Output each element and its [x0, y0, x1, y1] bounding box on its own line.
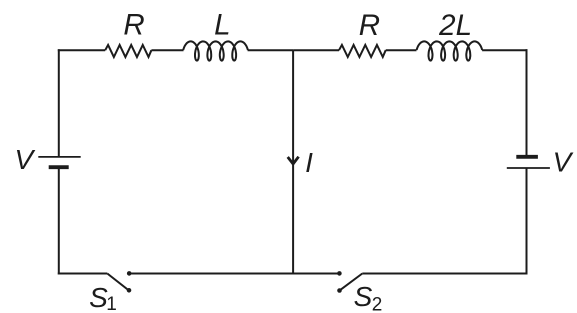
node: junction of middle branch with top wire; wire from middle node to right R [293, 49, 339, 51]
wire between R and L [151, 49, 183, 51]
svg-text:V: V [14, 144, 35, 175]
svg-text:R: R [359, 9, 380, 42]
svg-text:2L: 2L [438, 9, 472, 42]
svg-text:1: 1 [106, 294, 117, 313]
svg-text:S: S [354, 281, 373, 312]
inductor 2L [417, 41, 483, 60]
wire left vertical upper (corner down to battery) [58, 49, 60, 157]
wire middle vertical branch [292, 50, 294, 273]
wire between right R and 2L [386, 49, 417, 51]
wire top-left horizontal (top-left corner to R) [58, 49, 105, 51]
switch S2 fixed contact dot (on wire) [337, 271, 342, 276]
svg-text:L: L [214, 9, 230, 42]
battery V (left) negative short thick plate [49, 165, 69, 169]
switch S2 blade lower contact dot [337, 288, 342, 293]
inductor L [183, 41, 248, 60]
wire right vertical lower (battery to bottom-right corner) [526, 168, 528, 275]
switch S2 blade (open, from lower contact up-right) [340, 274, 363, 291]
resistor R (right) [339, 45, 386, 57]
resistor R (left) [105, 45, 151, 57]
wire bottom-left horizontal (corner to switch S1) [58, 273, 108, 275]
svg-text:V: V [553, 147, 574, 178]
wire right vertical upper (corner down to battery) [526, 49, 528, 157]
battery V (right) negative short thick plate [516, 155, 538, 159]
switch S1 blade end contact dot [127, 288, 132, 293]
current arrow head on middle branch [288, 157, 299, 164]
svg-text:I: I [305, 147, 313, 178]
switch S1 fixed contact dot (on wire) [127, 271, 132, 276]
wire left vertical lower (battery to bottom-left corner) [58, 167, 60, 274]
wire from L to middle node [248, 49, 294, 51]
battery V (right) positive long plate [507, 167, 550, 169]
switch S1 blade (open, hanging down-right) [107, 274, 128, 290]
wire from 2L to top-right corner [482, 49, 527, 51]
svg-text:2: 2 [372, 295, 383, 313]
battery V (left) positive long plate [38, 156, 80, 158]
wire bottom-right horizontal (S2 to bottom-right corner) [362, 273, 527, 275]
wire bottom middle horizontal (S1 contact to S2 contact) [129, 273, 339, 275]
svg-text:R: R [123, 9, 144, 42]
